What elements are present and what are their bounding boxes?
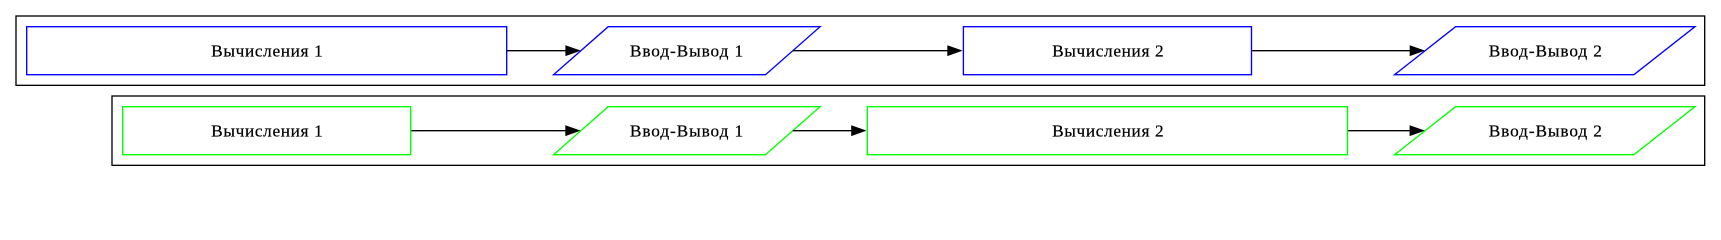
- process box "Вычисления 2" (bottom row): [867, 107, 1347, 155]
- arrow: Вычисления 2 -> Ввод-Вывод 2 (top row): [1252, 45, 1425, 56]
- svg-text:Ввод-Вывод 2: Ввод-Вывод 2: [1489, 122, 1603, 141]
- svg-text:Вычисления 2: Вычисления 2: [1052, 122, 1164, 141]
- io parallelogram "Ввод-Вывод 1" (top row): [554, 27, 821, 75]
- process box "Вычисления 1" (bottom row): [123, 107, 411, 155]
- arrow: Вычисления 2 -> Ввод-Вывод 2 (bottom row): [1348, 125, 1425, 136]
- svg-text:Вычисления 1: Вычисления 1: [211, 42, 323, 61]
- cluster frame: bottom row (green scheme): [112, 96, 1705, 165]
- svg-text:Ввод-Вывод 1: Ввод-Вывод 1: [630, 122, 744, 141]
- cluster frame: top row (blue scheme): [16, 16, 1705, 85]
- io parallelogram "Ввод-Вывод 1" (bottom row): [554, 107, 821, 155]
- svg-text:Ввод-Вывод 1: Ввод-Вывод 1: [630, 42, 744, 61]
- process box "Вычисления 1" (top row): [27, 27, 507, 75]
- io parallelogram "Ввод-Вывод 2" (bottom row): [1395, 107, 1695, 155]
- arrow: Вычисления 1 -> Ввод-Вывод 1 (top row): [507, 45, 581, 56]
- svg-text:Ввод-Вывод 2: Ввод-Вывод 2: [1489, 42, 1603, 61]
- arrow: Вычисления 1 -> Ввод-Вывод 1 (bottom row): [411, 125, 580, 136]
- arrow: Ввод-Вывод 1 -> Вычисления 2 (top row): [793, 45, 963, 56]
- io parallelogram "Ввод-Вывод 2" (top row): [1395, 27, 1695, 75]
- svg-text:Вычисления 2: Вычисления 2: [1052, 42, 1164, 61]
- process box "Вычисления 2" (top row): [963, 27, 1251, 75]
- svg-text:Вычисления 1: Вычисления 1: [211, 122, 323, 141]
- arrow: Ввод-Вывод 1 -> Вычисления 2 (bottom row): [793, 125, 867, 136]
